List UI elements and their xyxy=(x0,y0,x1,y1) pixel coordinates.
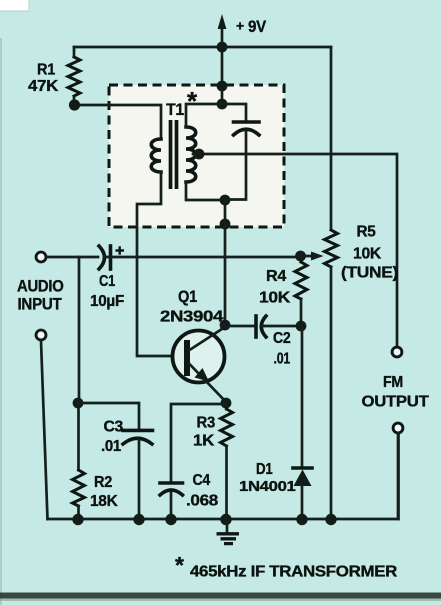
svg-text:C4: C4 xyxy=(193,472,211,489)
resistor R1 xyxy=(68,57,80,96)
junction rail R2 xyxy=(72,514,83,525)
wiper arrow to R5 xyxy=(301,255,315,258)
svg-text:18K: 18K xyxy=(90,493,118,510)
svg-text:T1: T1 xyxy=(166,100,184,119)
dashed module box around T1 xyxy=(109,85,284,227)
svg-text:C1: C1 xyxy=(99,273,115,290)
svg-text:R3: R3 xyxy=(197,415,216,432)
svg-text:47K: 47K xyxy=(28,78,59,95)
wire R2 to rail xyxy=(77,506,80,519)
resistor R2 xyxy=(73,470,85,506)
svg-text:R5: R5 xyxy=(357,224,376,241)
wire C1 to tuning node xyxy=(104,256,300,259)
capacitor C3 xyxy=(123,429,153,433)
capacitor inside T1 box xyxy=(222,104,246,122)
ground symbol xyxy=(226,519,229,533)
wire audio line branch down to R2/C3 xyxy=(78,257,81,403)
junction R2/C3 node xyxy=(73,398,84,409)
svg-text:R2: R2 xyxy=(94,474,112,491)
junction on dashed box bottom edge xyxy=(220,219,231,230)
FM output top terminal xyxy=(392,347,402,357)
transformer T1 core xyxy=(171,120,177,189)
ground rail wire xyxy=(48,434,399,519)
svg-text:INPUT: INPUT xyxy=(18,296,62,314)
diode D1 xyxy=(293,466,312,470)
junction rail D1 xyxy=(296,514,307,525)
wire R5 top feed from rail xyxy=(330,47,333,229)
svg-text:.01: .01 xyxy=(274,351,291,368)
junction +9V rail xyxy=(217,42,228,53)
label C1 plus xyxy=(116,246,125,254)
junction R1 bottom xyxy=(69,99,80,110)
svg-text:9V: 9V xyxy=(248,17,267,36)
junction emitter node xyxy=(221,398,232,409)
svg-text:C3: C3 xyxy=(104,419,124,436)
svg-text:*: * xyxy=(187,86,198,116)
wire C3 to rail xyxy=(138,440,141,519)
wire D1 branch xyxy=(301,326,304,468)
audio input top terminal xyxy=(36,252,46,262)
svg-text:10K: 10K xyxy=(353,246,382,263)
wire R5 bottom to rail xyxy=(330,267,333,519)
wire T1 bottom down to collector xyxy=(224,200,227,325)
wire +9V drop into box xyxy=(221,47,224,104)
wire secondary top lead xyxy=(186,104,222,127)
junction secondary top node xyxy=(217,99,228,110)
resistor R4 xyxy=(300,256,303,262)
capacitor C1 xyxy=(99,246,105,269)
transistor Q1 xyxy=(173,331,225,383)
capacitor C4 xyxy=(160,481,183,485)
svg-text:AUDIO: AUDIO xyxy=(17,278,64,296)
capacitor C2 xyxy=(254,316,258,337)
wire node to R2 xyxy=(77,403,80,470)
svg-text:465kHz IF TRANSFORMER: 465kHz IF TRANSFORMER xyxy=(190,564,397,581)
audio input bottom terminal xyxy=(36,330,46,340)
svg-text:R1: R1 xyxy=(37,62,55,79)
transformer T1 secondary winding xyxy=(186,127,196,182)
svg-text:OUTPUT: OUTPUT xyxy=(362,394,430,411)
junction rail C3 xyxy=(133,514,144,525)
wire audio input to C1 xyxy=(47,256,99,259)
svg-text:*: * xyxy=(175,552,184,578)
svg-text:1N4001: 1N4001 xyxy=(239,478,296,495)
junction on dashed box top edge xyxy=(217,81,228,92)
junction center tap xyxy=(194,149,205,160)
wire emitter node to C4 xyxy=(171,404,226,483)
FM output bottom terminal xyxy=(393,423,403,433)
svg-text:.068: .068 xyxy=(186,493,218,510)
junction rail R3/ground xyxy=(220,514,231,525)
power +9V arrow xyxy=(221,26,224,47)
svg-text:Q1: Q1 xyxy=(178,288,197,306)
junction secondary bottom node xyxy=(220,195,231,206)
Q1 emitter lead xyxy=(190,364,227,402)
junction collector node xyxy=(220,320,231,331)
wire C4 to rail xyxy=(170,492,173,519)
wire secondary center tap to FM output xyxy=(193,154,397,347)
svg-text:10K: 10K xyxy=(259,290,291,307)
wire collector to C2 xyxy=(225,325,255,328)
resistor R3 xyxy=(225,403,228,409)
wire +9V rail xyxy=(74,46,331,49)
junction R4 bottom / C2 / D1 node xyxy=(296,321,307,332)
svg-text:+: + xyxy=(236,18,244,34)
svg-text:R4: R4 xyxy=(266,268,286,285)
transformer T1 primary winding xyxy=(151,139,161,172)
junction rail C4 xyxy=(165,514,176,525)
svg-text:1K: 1K xyxy=(193,433,215,450)
svg-text:C2: C2 xyxy=(273,330,291,347)
white page-corner notch top-left xyxy=(0,0,29,11)
junction tuning node xyxy=(295,251,306,262)
svg-text:.01: .01 xyxy=(101,438,122,455)
svg-text:10µF: 10µF xyxy=(90,293,124,310)
svg-text:FM: FM xyxy=(383,374,403,391)
wire secondary bottom lead xyxy=(186,182,225,200)
resistor R5 potentiometer xyxy=(325,230,338,267)
bottom page-edge dark band xyxy=(0,593,441,599)
svg-text:(TUNE): (TUNE) xyxy=(341,265,398,282)
wire primary bottom lead down to Q1 base xyxy=(137,172,184,356)
svg-text:2N3904: 2N3904 xyxy=(160,309,223,326)
junction rail R5 xyxy=(325,514,336,525)
wire FM bottom terminal to rail xyxy=(397,433,400,519)
wire C2 to R4/D1 node xyxy=(262,325,301,328)
wire R1 top feed xyxy=(73,47,76,57)
svg-text:D1: D1 xyxy=(256,461,273,478)
left page edge shading xyxy=(0,38,2,605)
wire node to C3 xyxy=(78,403,139,430)
wire R1 bottom to T1 primary xyxy=(74,97,161,139)
wire audio bottom terminal to ground rail xyxy=(41,341,48,519)
Q1 collector lead xyxy=(190,327,226,350)
